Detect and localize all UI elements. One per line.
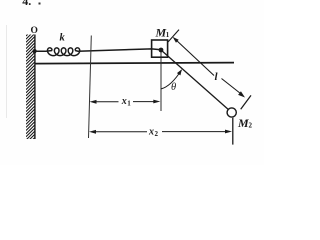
svg-text:2: 2	[249, 122, 253, 130]
svg-text:4.: 4.	[22, 0, 31, 8]
svg-text:O: O	[31, 26, 38, 36]
svg-text:2: 2	[155, 130, 159, 138]
svg-text:1: 1	[166, 31, 170, 39]
svg-text:x: x	[121, 96, 127, 107]
svg-text:θ: θ	[171, 82, 176, 93]
svg-text:M: M	[237, 116, 249, 130]
svg-text:x: x	[148, 127, 154, 138]
svg-text:M: M	[155, 26, 167, 40]
svg-text:1: 1	[127, 100, 131, 108]
svg-text:k: k	[60, 33, 66, 44]
